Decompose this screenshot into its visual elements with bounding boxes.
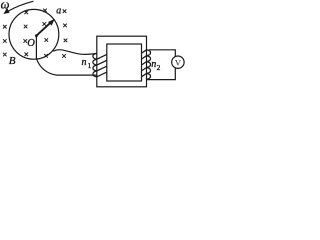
svg-text:1: 1 (88, 61, 92, 70)
svg-text:2: 2 (157, 63, 161, 72)
svg-text:O: O (27, 38, 35, 49)
svg-text:V: V (175, 58, 182, 68)
svg-text:B: B (9, 55, 16, 67)
svg-text:n: n (82, 57, 87, 68)
svg-text:n: n (151, 59, 156, 70)
svg-text:a: a (56, 5, 61, 16)
svg-text:ω: ω (1, 0, 10, 11)
